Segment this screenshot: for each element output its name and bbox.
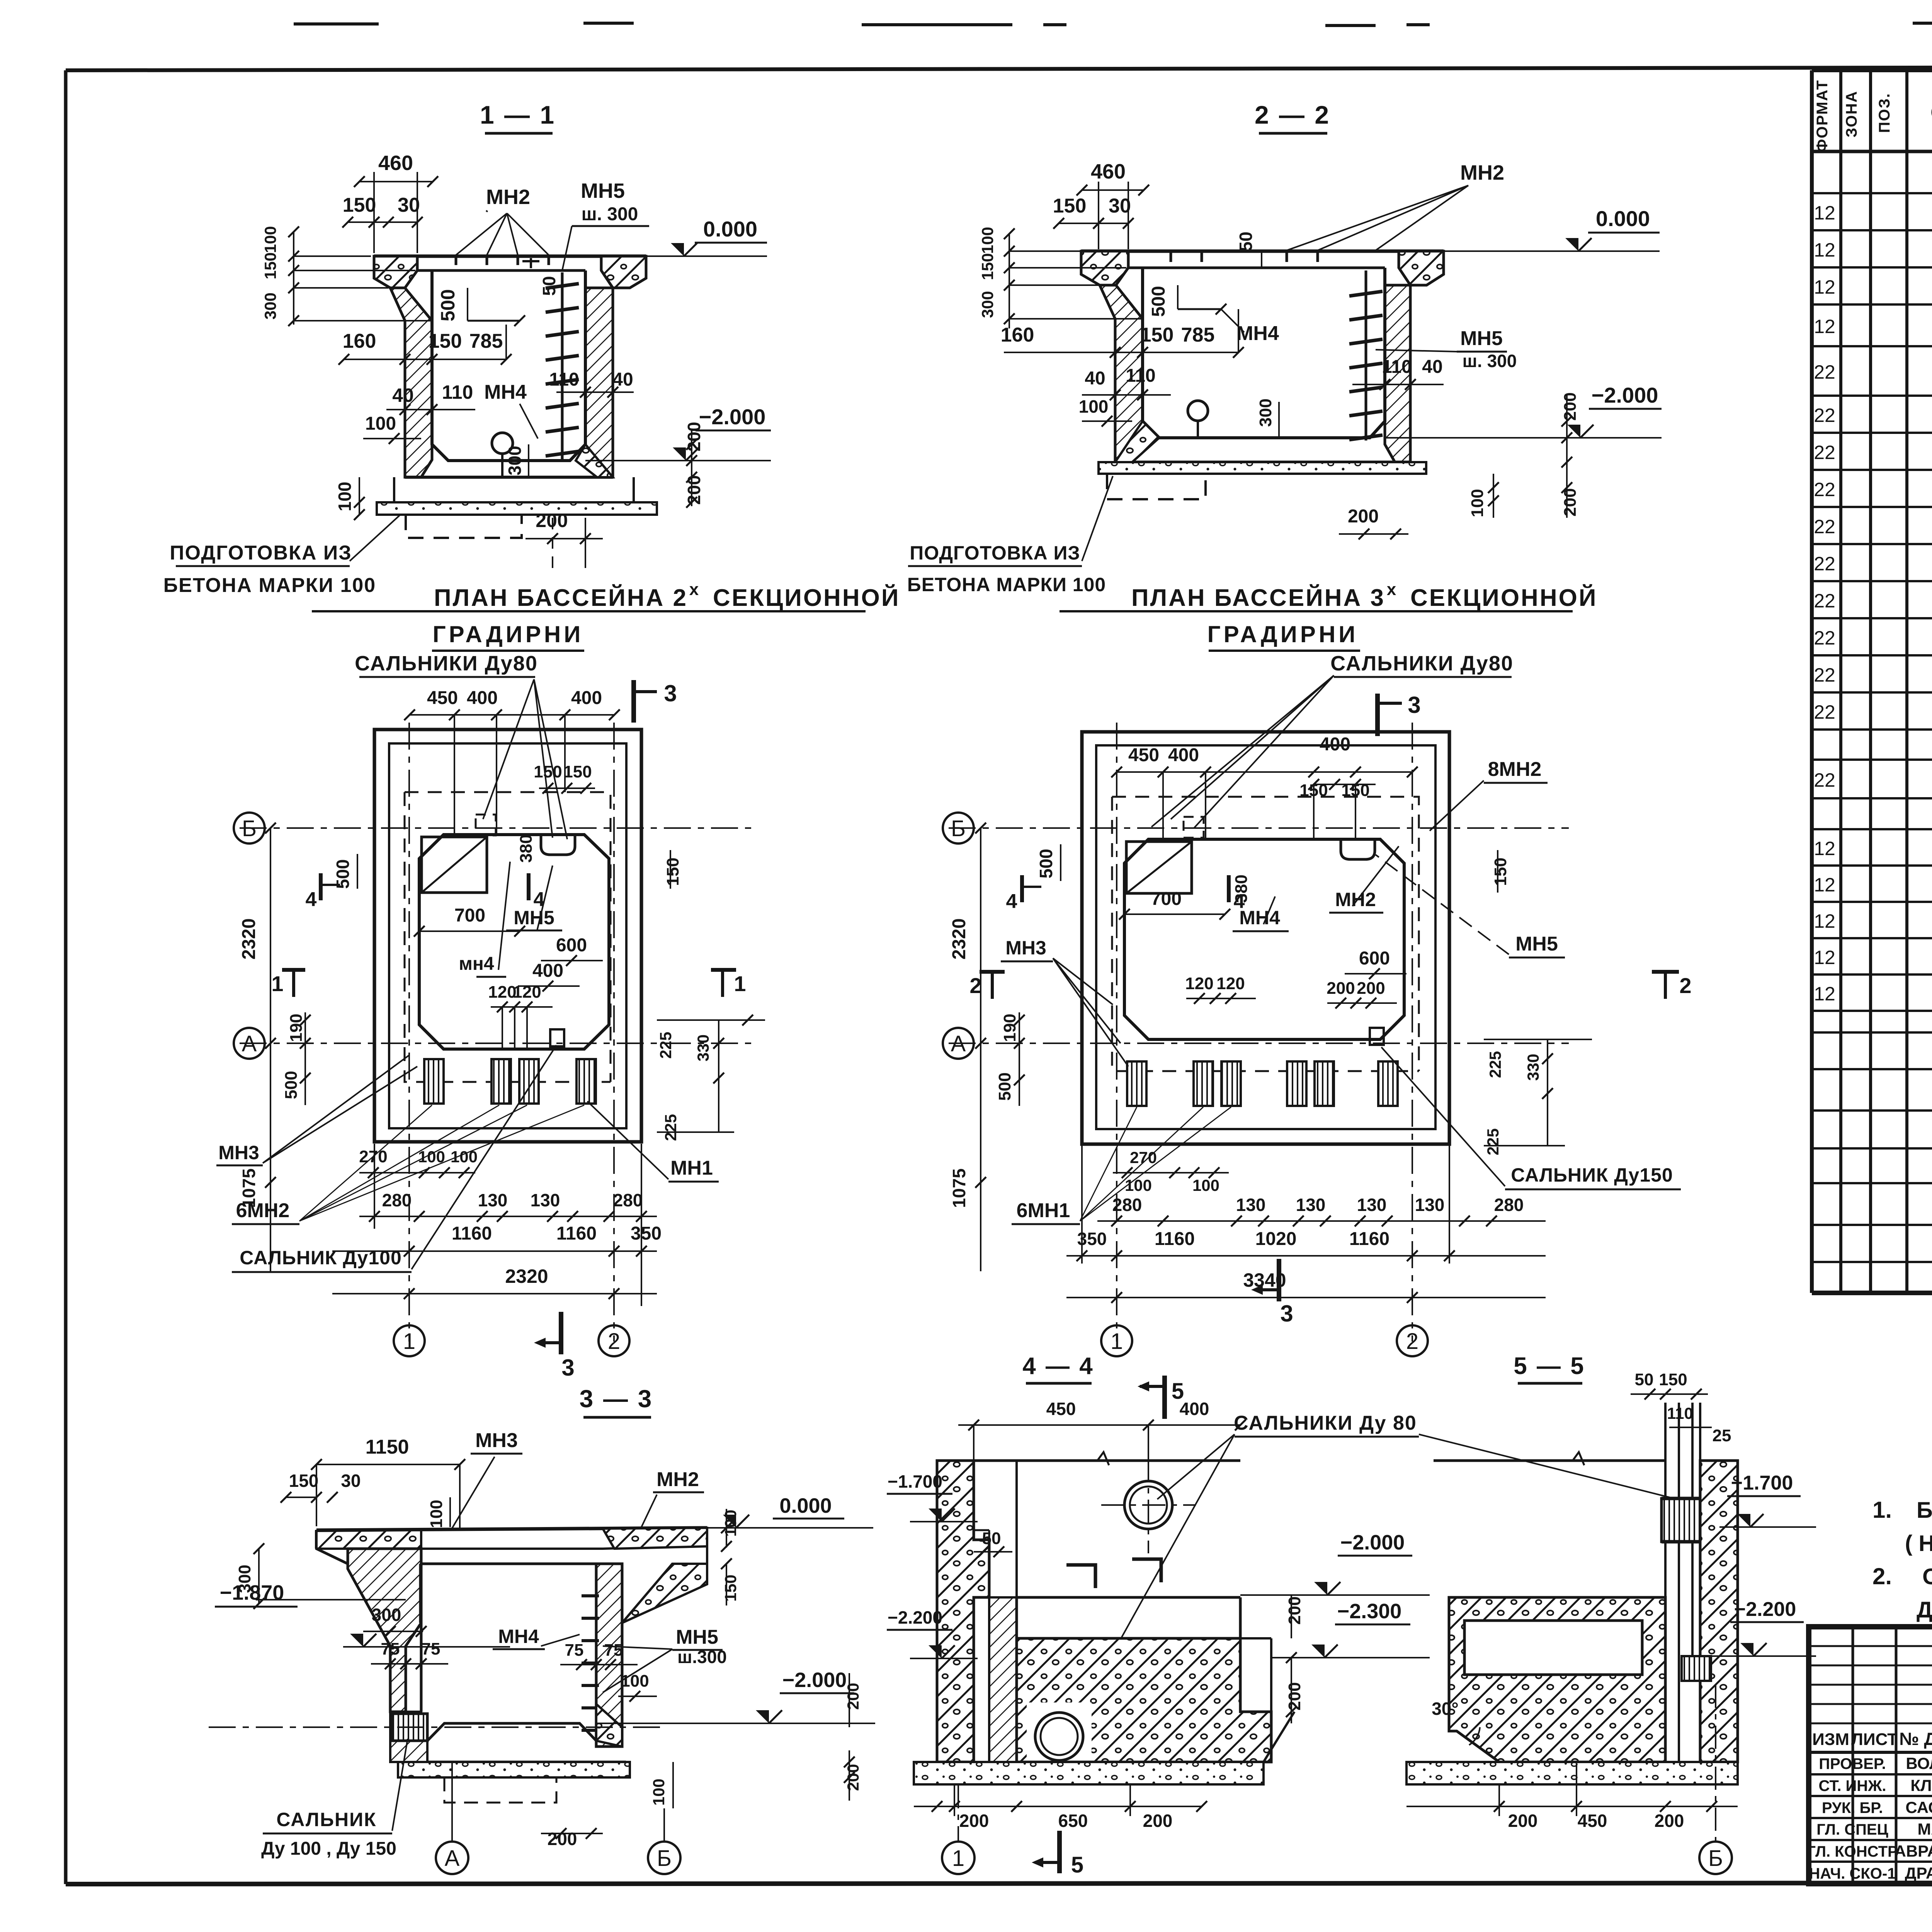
svg-text:Б: Б [242, 816, 257, 841]
svg-text:200: 200 [1561, 392, 1580, 420]
svg-text:2320: 2320 [949, 918, 969, 960]
svg-text:12: 12 [1814, 239, 1835, 261]
svg-text:400: 400 [571, 688, 602, 708]
svg-text:330: 330 [1524, 1054, 1542, 1081]
svg-text:САСОНКО: САСОНКО [1905, 1798, 1932, 1816]
svg-text:1160: 1160 [452, 1223, 492, 1244]
svg-text:МН4: МН4 [498, 1626, 539, 1647]
svg-text:мн4: мн4 [459, 954, 494, 974]
svg-text:0.000: 0.000 [1596, 206, 1650, 231]
svg-text:Ду 100 , Ду 150: Ду 100 , Ду 150 [261, 1838, 396, 1859]
svg-text:270: 270 [1130, 1148, 1157, 1167]
svg-text:−2.000: −2.000 [699, 405, 766, 429]
svg-text:МН4: МН4 [1236, 322, 1279, 345]
svg-text:МН1: МН1 [670, 1157, 713, 1179]
svg-text:МН2: МН2 [486, 185, 530, 209]
svg-text:380: 380 [517, 834, 536, 862]
svg-text:4: 4 [1234, 890, 1245, 913]
svg-text:ГРАДИРНИ: ГРАДИРНИ [1207, 621, 1359, 647]
svg-text:22: 22 [1814, 627, 1835, 649]
svg-text:−1.700: −1.700 [888, 1471, 942, 1492]
svg-text:150: 150 [1140, 324, 1174, 346]
svg-text:2.: 2. [1872, 1563, 1892, 1589]
svg-text:ОБОЗНАЧЕНИЕ: ОБОЗНАЧЕНИЕ [1930, 100, 1932, 124]
svg-text:МН3: МН3 [475, 1429, 518, 1452]
svg-text:110: 110 [1667, 1404, 1693, 1422]
svg-text:40: 40 [1085, 368, 1105, 389]
svg-text:30°: 30° [1432, 1699, 1459, 1719]
svg-text:75: 75 [381, 1639, 400, 1658]
svg-text:БЕТОНА МАРКИ 100: БЕТОНА МАРКИ 100 [907, 574, 1106, 595]
svg-text:2: 2 [608, 1329, 620, 1354]
svg-text:150: 150 [534, 762, 562, 781]
svg-text:ш.300: ш.300 [677, 1647, 727, 1667]
svg-text:130: 130 [478, 1190, 508, 1210]
svg-text:150: 150 [721, 1575, 740, 1602]
svg-text:ВОЛКОВА: ВОЛКОВА [1906, 1754, 1932, 1772]
svg-text:450: 450 [1046, 1399, 1076, 1419]
svg-text:785: 785 [469, 330, 503, 352]
svg-text:САЛЬНИК Ду150: САЛЬНИК Ду150 [1511, 1164, 1673, 1186]
svg-text:160: 160 [1001, 324, 1034, 346]
svg-text:−2.000: −2.000 [1340, 1531, 1405, 1554]
svg-text:400: 400 [532, 961, 563, 981]
svg-text:75: 75 [604, 1641, 623, 1660]
svg-text:ГЛ. КОНСТР: ГЛ. КОНСТР [1807, 1843, 1898, 1860]
svg-text:130: 130 [1357, 1195, 1387, 1215]
svg-text:500: 500 [995, 1072, 1014, 1100]
svg-text:САЛЬНИКИ Ду 80: САЛЬНИКИ Ду 80 [1234, 1412, 1417, 1434]
svg-text:225: 225 [1486, 1051, 1504, 1078]
svg-text:1: 1 [952, 1846, 964, 1871]
svg-text:ПЛАН БАССЕЙНА 3: ПЛАН БАССЕЙНА 3 [1131, 584, 1385, 611]
svg-text:100: 100 [1125, 1176, 1152, 1194]
svg-text:САЛЬНИКИ Ду80: САЛЬНИКИ Ду80 [1330, 652, 1514, 675]
svg-text:100: 100 [427, 1500, 446, 1528]
svg-text:2320: 2320 [505, 1265, 548, 1287]
svg-text:ДОСТИЖЕНИЯ БЕТОНОМ СТЕН ПРО: ДОСТИЖЕНИЯ БЕТОНОМ СТЕН ПРОЧНОСТИ НЕ МЕН… [1917, 1597, 1932, 1622]
svg-text:500: 500 [1148, 286, 1169, 317]
svg-text:200: 200 [959, 1811, 989, 1831]
svg-text:1: 1 [1111, 1329, 1123, 1354]
svg-text:100: 100 [261, 226, 279, 253]
svg-text:225: 225 [1484, 1128, 1502, 1155]
svg-text:150: 150 [1659, 1370, 1687, 1389]
svg-text:190: 190 [1000, 1014, 1019, 1042]
svg-text:450: 450 [1578, 1811, 1607, 1831]
svg-text:22: 22 [1814, 479, 1835, 500]
svg-text:ПОДГОТОВКА ИЗ: ПОДГОТОВКА ИЗ [910, 542, 1080, 564]
svg-text:50: 50 [1635, 1370, 1654, 1389]
svg-text:3: 3 [1408, 692, 1420, 718]
svg-text:200: 200 [1357, 979, 1385, 998]
svg-text:( Н Е П Р Е Р Ы В Н О ) .: ( Н Е П Р Е Р Ы В Н О ) . [1905, 1531, 1932, 1556]
svg-text:700: 700 [454, 905, 485, 926]
svg-text:200: 200 [844, 1764, 862, 1791]
svg-text:22: 22 [1814, 442, 1835, 463]
svg-text:ОБРАТНУЮ ЗАСЫПКУ КОТЛОВАНА: ОБРАТНУЮ ЗАСЫПКУ КОТЛОВАНА ПРОИЗВОДИТЬ П… [1922, 1564, 1932, 1589]
svg-text:1075: 1075 [949, 1168, 969, 1208]
svg-text:400: 400 [1180, 1399, 1209, 1419]
svg-text:200: 200 [1285, 1596, 1304, 1624]
svg-text:100: 100 [1192, 1176, 1219, 1194]
svg-text:Б: Б [657, 1846, 672, 1871]
svg-text:БЕТОНА МАРКИ 100: БЕТОНА МАРКИ 100 [163, 574, 376, 597]
svg-text:650: 650 [1058, 1811, 1088, 1831]
svg-text:ЗОНА: ЗОНА [1843, 90, 1860, 137]
svg-text:ДРАМПОВ: ДРАМПОВ [1905, 1864, 1932, 1882]
svg-text:5 — 5: 5 — 5 [1514, 1353, 1585, 1379]
svg-text:1075: 1075 [239, 1168, 259, 1208]
svg-text:4: 4 [306, 888, 317, 911]
svg-text:300: 300 [261, 293, 279, 320]
svg-text:СТ. ИНЖ.: СТ. ИНЖ. [1819, 1777, 1886, 1794]
svg-text:40: 40 [1422, 357, 1442, 377]
svg-text:500: 500 [437, 289, 459, 321]
svg-text:1160: 1160 [556, 1223, 597, 1244]
svg-text:МН4: МН4 [1239, 907, 1280, 929]
svg-text:130: 130 [1236, 1195, 1266, 1215]
svg-text:1: 1 [734, 971, 746, 996]
svg-text:150: 150 [1053, 195, 1087, 217]
svg-text:МН2: МН2 [1335, 889, 1376, 910]
svg-text:12: 12 [1814, 202, 1835, 224]
svg-text:190: 190 [287, 1014, 306, 1042]
svg-text:3: 3 [664, 680, 677, 706]
svg-text:100: 100 [1079, 396, 1109, 417]
svg-text:150: 150 [1491, 857, 1510, 886]
svg-text:Б: Б [951, 816, 966, 841]
svg-text:РУК. БР.: РУК. БР. [1822, 1799, 1883, 1816]
svg-text:−2.300: −2.300 [1337, 1600, 1402, 1623]
svg-text:30: 30 [1109, 195, 1131, 217]
svg-text:12: 12 [1814, 910, 1835, 932]
svg-text:110: 110 [1382, 357, 1412, 377]
svg-text:4: 4 [534, 888, 545, 911]
svg-text:280: 280 [382, 1190, 412, 1210]
svg-text:100: 100 [365, 413, 396, 434]
svg-text:2: 2 [1679, 973, 1691, 998]
svg-text:280: 280 [1112, 1195, 1142, 1215]
svg-text:400: 400 [1320, 734, 1350, 755]
svg-text:130: 130 [531, 1190, 560, 1210]
svg-text:22: 22 [1814, 516, 1835, 537]
svg-text:1 — 1: 1 — 1 [480, 100, 556, 129]
svg-text:АВРАМЕНКО: АВРАМЕНКО [1895, 1842, 1932, 1860]
svg-text:150: 150 [429, 330, 462, 352]
svg-text:600: 600 [1359, 948, 1390, 969]
svg-text:А: А [951, 1031, 966, 1056]
svg-text:460: 460 [1091, 160, 1126, 183]
svg-text:110: 110 [549, 369, 579, 390]
svg-text:1160: 1160 [1155, 1229, 1195, 1249]
svg-text:САЛЬНИКИ Ду80: САЛЬНИКИ Ду80 [355, 652, 538, 675]
svg-text:120: 120 [513, 983, 541, 1002]
svg-text:ГРАДИРНИ: ГРАДИРНИ [433, 621, 584, 647]
svg-text:200: 200 [684, 475, 704, 505]
svg-text:75: 75 [565, 1641, 584, 1660]
svg-text:МН2: МН2 [656, 1468, 699, 1491]
svg-text:160: 160 [343, 330, 376, 352]
svg-text:40: 40 [392, 384, 414, 406]
svg-text:ФОРМАТ: ФОРМАТ [1814, 80, 1831, 152]
svg-text:4: 4 [1006, 890, 1017, 913]
svg-text:100: 100 [335, 482, 355, 512]
svg-text:МН5: МН5 [581, 179, 625, 202]
svg-text:12: 12 [1814, 874, 1835, 896]
svg-text:−2.200: −2.200 [888, 1607, 942, 1628]
svg-text:500: 500 [282, 1071, 301, 1099]
svg-text:225: 225 [662, 1114, 680, 1141]
svg-text:30: 30 [341, 1471, 361, 1491]
svg-text:225: 225 [656, 1032, 675, 1059]
svg-text:200: 200 [1348, 506, 1379, 527]
svg-text:30: 30 [398, 194, 420, 216]
svg-text:ИЗМ: ИЗМ [1812, 1730, 1849, 1749]
svg-text:1020: 1020 [1255, 1229, 1297, 1249]
svg-text:100: 100 [1468, 489, 1487, 517]
svg-text:150: 150 [563, 762, 592, 781]
svg-text:ПОЗ.: ПОЗ. [1876, 93, 1893, 133]
svg-text:330: 330 [694, 1034, 712, 1061]
svg-text:200: 200 [1508, 1811, 1538, 1831]
svg-text:САЛЬНИК: САЛЬНИК [276, 1809, 376, 1830]
svg-text:75: 75 [422, 1639, 440, 1658]
svg-text:40: 40 [612, 369, 633, 390]
svg-text:х: х [1387, 580, 1396, 599]
svg-text:−1.700: −1.700 [1731, 1472, 1793, 1494]
svg-text:150: 150 [663, 857, 682, 886]
svg-text:БЕТОНИРОВАНИЕ БАССЕЙНА ВЕСТИ: БЕТОНИРОВАНИЕ БАССЕЙНА ВЕСТИ БЕЗ РАБОЧИХ… [1917, 1498, 1932, 1523]
svg-text:600: 600 [556, 935, 587, 956]
svg-text:200: 200 [1143, 1811, 1173, 1831]
svg-text:4 — 4: 4 — 4 [1022, 1353, 1094, 1379]
svg-text:А: А [445, 1846, 460, 1871]
svg-text:1160: 1160 [1349, 1229, 1389, 1249]
svg-text:22: 22 [1814, 553, 1835, 575]
svg-text:350: 350 [631, 1223, 662, 1244]
svg-text:0.000: 0.000 [703, 217, 757, 241]
svg-text:280: 280 [1494, 1195, 1524, 1215]
svg-text:№ ДОКУМ.: № ДОКУМ. [1899, 1729, 1932, 1749]
svg-text:−2.000: −2.000 [1592, 383, 1658, 407]
svg-text:МН2: МН2 [1460, 161, 1504, 184]
svg-text:400: 400 [467, 688, 498, 708]
svg-text:450: 450 [427, 688, 458, 708]
svg-text:6МН1: 6МН1 [1017, 1199, 1070, 1222]
svg-text:СЕКЦИОННОЙ: СЕКЦИОННОЙ [713, 584, 900, 611]
svg-text:СЕКЦИОННОЙ: СЕКЦИОННОЙ [1410, 584, 1597, 611]
svg-text:12: 12 [1814, 838, 1835, 859]
svg-text:−2.000: −2.000 [782, 1668, 847, 1692]
svg-text:2 — 2: 2 — 2 [1255, 100, 1330, 129]
svg-text:12: 12 [1814, 276, 1835, 298]
svg-text:1150: 1150 [366, 1436, 409, 1458]
svg-text:50: 50 [982, 1529, 1001, 1548]
svg-text:8МН2: 8МН2 [1488, 758, 1542, 781]
svg-text:ГЛ. СПЕЦ: ГЛ. СПЕЦ [1816, 1821, 1888, 1838]
svg-text:А: А [242, 1031, 257, 1056]
svg-text:НАЧ. СКО-1: НАЧ. СКО-1 [1809, 1865, 1896, 1882]
svg-text:3: 3 [561, 1355, 574, 1381]
svg-text:500: 500 [1036, 849, 1056, 879]
svg-text:200: 200 [1655, 1811, 1684, 1831]
svg-text:12: 12 [1814, 983, 1835, 1005]
svg-text:200: 200 [1561, 488, 1580, 516]
svg-text:110: 110 [442, 381, 473, 403]
svg-text:ЛИСТ: ЛИСТ [1851, 1730, 1898, 1749]
svg-text:25: 25 [1713, 1426, 1731, 1445]
svg-text:150: 150 [978, 253, 997, 280]
svg-text:0.000: 0.000 [779, 1494, 832, 1517]
svg-text:МН5: МН5 [1460, 327, 1503, 350]
svg-text:МАРЕК: МАРЕК [1918, 1820, 1932, 1838]
svg-text:300: 300 [1256, 398, 1275, 427]
svg-text:2320: 2320 [239, 918, 259, 960]
svg-text:5: 5 [1071, 1852, 1083, 1878]
svg-text:450: 450 [1128, 745, 1159, 765]
svg-text:1: 1 [403, 1329, 415, 1354]
svg-text:120: 120 [1216, 974, 1245, 993]
svg-text:1: 1 [271, 971, 283, 996]
svg-text:МН4: МН4 [484, 381, 527, 403]
svg-text:280: 280 [613, 1190, 643, 1210]
svg-text:22: 22 [1814, 701, 1835, 723]
svg-text:300: 300 [978, 291, 997, 318]
svg-text:КЛИМОВ: КЛИМОВ [1910, 1776, 1932, 1794]
svg-text:130: 130 [1296, 1195, 1326, 1215]
svg-text:МН3: МН3 [218, 1142, 259, 1163]
svg-text:200: 200 [844, 1683, 862, 1710]
svg-text:ш. 300: ш. 300 [582, 204, 638, 224]
svg-text:ПЛАН БАССЕЙНА 2: ПЛАН БАССЕЙНА 2 [434, 584, 688, 611]
svg-text:3: 3 [1280, 1301, 1293, 1327]
svg-text:22: 22 [1814, 590, 1835, 612]
svg-text:300: 300 [372, 1605, 401, 1625]
svg-text:2: 2 [969, 973, 981, 998]
svg-text:785: 785 [1181, 324, 1215, 346]
svg-text:50: 50 [539, 276, 559, 296]
svg-text:150: 150 [289, 1471, 319, 1491]
svg-text:100: 100 [978, 227, 997, 254]
svg-text:22: 22 [1814, 405, 1835, 426]
svg-text:12: 12 [1814, 947, 1835, 968]
svg-text:МН5: МН5 [676, 1626, 718, 1648]
svg-text:12: 12 [1814, 316, 1835, 337]
svg-text:−2.200: −2.200 [1734, 1598, 1796, 1621]
svg-text:1.: 1. [1872, 1497, 1892, 1523]
svg-text:300: 300 [505, 446, 525, 476]
svg-text:100: 100 [650, 1779, 668, 1806]
svg-text:130: 130 [1415, 1195, 1445, 1215]
svg-text:22: 22 [1814, 361, 1835, 383]
svg-text:150: 150 [343, 194, 376, 216]
svg-text:100: 100 [621, 1672, 649, 1690]
svg-text:200: 200 [1285, 1682, 1304, 1710]
svg-text:−1.870: −1.870 [220, 1581, 284, 1604]
svg-text:х: х [689, 580, 699, 599]
svg-text:МН5: МН5 [1515, 933, 1558, 955]
svg-text:Б: Б [1708, 1846, 1723, 1871]
svg-text:50: 50 [1236, 231, 1256, 251]
svg-text:ПОДГОТОВКА ИЗ: ПОДГОТОВКА ИЗ [170, 542, 352, 564]
svg-text:МН3: МН3 [1005, 937, 1046, 959]
svg-text:ш. 300: ш. 300 [1463, 351, 1517, 371]
svg-text:120: 120 [488, 983, 516, 1002]
svg-text:120: 120 [1185, 974, 1213, 993]
svg-text:700: 700 [1151, 889, 1182, 909]
svg-text:ПРОВЕР.: ПРОВЕР. [1819, 1755, 1886, 1772]
svg-text:3 — 3: 3 — 3 [580, 1385, 653, 1413]
svg-text:САЛЬНИК Ду100: САЛЬНИК Ду100 [240, 1247, 402, 1269]
svg-text:2: 2 [1406, 1329, 1418, 1354]
svg-text:400: 400 [1168, 745, 1199, 765]
svg-text:110: 110 [1126, 366, 1155, 386]
svg-text:150: 150 [261, 252, 279, 279]
svg-text:200: 200 [1327, 979, 1355, 998]
svg-text:22: 22 [1814, 769, 1835, 791]
svg-text:22: 22 [1814, 664, 1835, 686]
svg-text:460: 460 [378, 151, 413, 175]
